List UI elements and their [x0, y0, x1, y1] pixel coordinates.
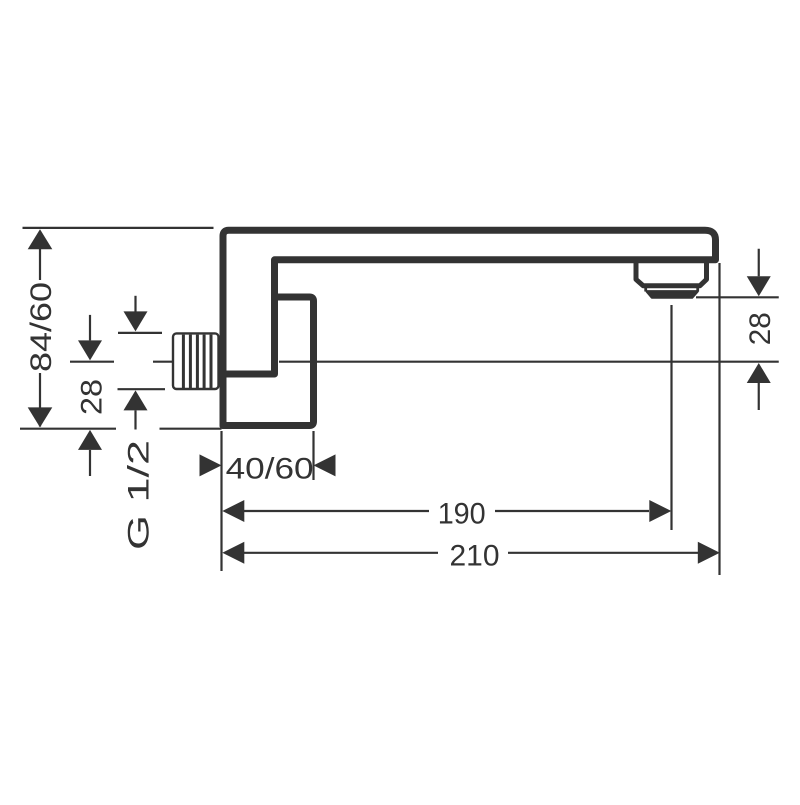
right edge extension line: [718, 263, 720, 575]
dimension 28 right up arrow: [747, 363, 771, 383]
spout outer profile: [223, 230, 716, 425]
svg-text:28: 28: [744, 312, 777, 345]
dimension 40/60 left arrow: [200, 454, 222, 476]
dimension 84/60 bottom arrow: [28, 407, 53, 427]
dimension 84/60 line: [39, 231, 41, 427]
dimension 28 left ref line: [70, 361, 114, 363]
threaded inlet knob: [173, 333, 219, 389]
aerator bottom reference line: [696, 296, 779, 298]
dimension 28 right down arrow: [758, 249, 760, 277]
svg-text:190: 190: [438, 498, 486, 531]
dimension 190 right arrow: [649, 500, 671, 522]
dimension G1/2 down arrow: [134, 296, 136, 312]
dimension 40/60 right arrow: [314, 454, 336, 476]
svg-text:210: 210: [450, 539, 500, 572]
dimension 210 left arrow: [222, 542, 244, 564]
extension below plate right: [312, 431, 314, 480]
knob thread stripes: [183, 335, 211, 388]
top extension line: [23, 227, 214, 229]
bottom reference line: [20, 428, 222, 430]
dimension 28 left up arrow: [78, 430, 102, 450]
dimension 210 right arrow: [698, 542, 720, 564]
aerator bottom lip: [647, 292, 697, 298]
dimension 210 line: [244, 552, 698, 554]
dimension G1/2 up arrow: [118, 388, 166, 390]
dimension 190 left arrow: [222, 500, 244, 522]
dimension 190 line: [244, 510, 649, 512]
dimension 84/60 top arrow: [28, 229, 53, 249]
svg-text:28: 28: [75, 379, 108, 415]
svg-text:84/60: 84/60: [25, 282, 58, 372]
aerator upper ring: [636, 260, 707, 286]
aerator middle band: [646, 286, 698, 292]
svg-text:40/60: 40/60: [226, 453, 314, 486]
extension below plate left: [220, 431, 222, 571]
aerator center extension line: [670, 305, 672, 530]
svg-text:G 1/2: G 1/2: [122, 440, 155, 550]
wall plate step outline: [223, 297, 314, 426]
dimension 28 left down arrow: [89, 315, 91, 341]
centerline: [153, 361, 779, 363]
